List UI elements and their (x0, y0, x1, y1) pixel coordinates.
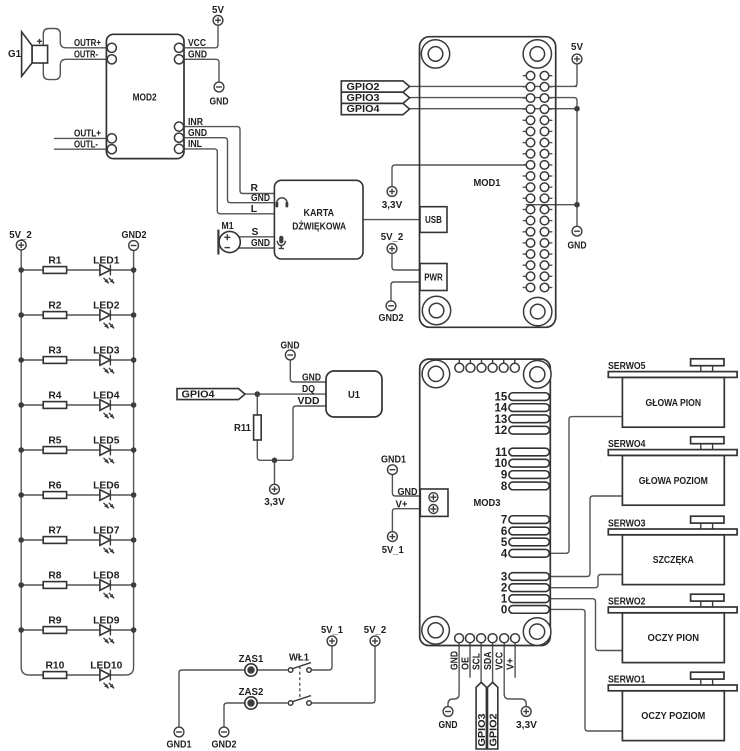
svg-text:8: 8 (501, 481, 508, 493)
svg-text:MOD1: MOD1 (474, 178, 501, 189)
svg-text:SZCZĘKA: SZCZĘKA (653, 555, 694, 566)
svg-text:R3: R3 (48, 346, 61, 357)
svg-text:R1: R1 (48, 256, 61, 267)
svg-text:SERWO2: SERWO2 (608, 597, 646, 608)
svg-text:OUTL-: OUTL- (74, 139, 98, 150)
svg-text:GPIO3: GPIO3 (347, 93, 380, 104)
svg-text:LED3: LED3 (93, 346, 120, 357)
svg-text:LED7: LED7 (93, 526, 120, 537)
svg-text:GND2: GND2 (212, 740, 237, 751)
svg-text:LED8: LED8 (93, 571, 120, 582)
svg-text:3,3V: 3,3V (516, 720, 537, 731)
svg-text:SCL: SCL (472, 653, 483, 670)
svg-text:ZAS2: ZAS2 (239, 687, 264, 698)
svg-text:9: 9 (501, 470, 507, 482)
svg-text:GND1: GND1 (381, 455, 406, 466)
svg-text:R8: R8 (48, 571, 61, 582)
svg-text:KARTA: KARTA (304, 208, 335, 219)
svg-text:SERWO4: SERWO4 (608, 439, 646, 450)
svg-text:OCZY PION: OCZY PION (648, 633, 700, 644)
svg-text:3,3V: 3,3V (264, 497, 285, 508)
svg-text:GPIO3: GPIO3 (477, 713, 488, 746)
svg-text:DQ: DQ (302, 384, 315, 395)
svg-text:GND: GND (188, 128, 207, 139)
svg-text:LED10: LED10 (90, 661, 122, 672)
svg-text:LED9: LED9 (93, 616, 120, 627)
svg-text:V+: V+ (396, 499, 408, 510)
svg-text:GND: GND (568, 240, 587, 251)
svg-text:5V: 5V (571, 42, 583, 53)
svg-text:USB: USB (425, 215, 442, 226)
svg-text:GND: GND (439, 720, 458, 731)
svg-text:GPIO4: GPIO4 (182, 389, 215, 400)
svg-text:GŁOWA POZIOM: GŁOWA POZIOM (639, 476, 708, 487)
svg-text:R2: R2 (48, 301, 61, 312)
svg-text:LED1: LED1 (93, 256, 120, 267)
svg-text:L: L (251, 204, 257, 215)
svg-text:GND: GND (450, 651, 461, 670)
svg-text:LED6: LED6 (93, 481, 120, 492)
svg-text:GPIO2: GPIO2 (347, 82, 380, 93)
svg-text:5V: 5V (212, 5, 224, 16)
svg-text:R9: R9 (48, 616, 61, 627)
svg-text:PWR: PWR (424, 273, 443, 284)
svg-text:VCC: VCC (495, 652, 506, 670)
svg-text:V+: V+ (506, 658, 517, 670)
svg-text:GND: GND (251, 238, 270, 249)
svg-text:GND: GND (281, 340, 300, 351)
svg-text:GND: GND (210, 97, 229, 108)
svg-text:R11: R11 (234, 423, 251, 434)
svg-text:INR: INR (188, 117, 203, 128)
svg-text:VCC: VCC (188, 38, 206, 49)
svg-text:G1: G1 (8, 49, 21, 60)
svg-text:LED5: LED5 (93, 436, 120, 447)
svg-text:LED2: LED2 (93, 301, 120, 312)
svg-text:GPIO2: GPIO2 (488, 713, 499, 746)
svg-text:MOD3: MOD3 (474, 498, 501, 509)
svg-text:GPIO4: GPIO4 (347, 104, 380, 115)
svg-text:11: 11 (495, 447, 508, 459)
svg-text:10: 10 (495, 458, 508, 470)
svg-text:14: 14 (495, 403, 508, 415)
svg-text:OE: OE (461, 657, 472, 670)
svg-text:LED4: LED4 (93, 391, 120, 402)
svg-text:GND: GND (251, 193, 270, 204)
svg-text:U1: U1 (348, 390, 360, 401)
svg-text:SERWO1: SERWO1 (608, 675, 646, 686)
svg-text:ZAS1: ZAS1 (239, 654, 264, 665)
svg-text:R4: R4 (48, 391, 61, 402)
svg-text:5V_2: 5V_2 (364, 625, 387, 636)
svg-text:3,3V: 3,3V (382, 200, 403, 211)
svg-text:WŁ1: WŁ1 (289, 652, 309, 663)
svg-text:12: 12 (495, 425, 508, 437)
svg-text:OUTR+: OUTR+ (74, 38, 101, 49)
svg-text:R5: R5 (48, 436, 61, 447)
svg-text:R10: R10 (45, 661, 64, 672)
svg-text:GND2: GND2 (122, 230, 147, 241)
svg-text:OCZY POZIOM: OCZY POZIOM (641, 711, 705, 722)
svg-text:GND2: GND2 (379, 313, 404, 324)
svg-text:5V_2: 5V_2 (381, 232, 404, 243)
svg-text:INL: INL (188, 139, 202, 150)
svg-text:VDD: VDD (298, 396, 320, 407)
svg-text:GND: GND (188, 50, 207, 61)
svg-text:5V_1: 5V_1 (321, 625, 343, 636)
svg-text:R7: R7 (48, 526, 61, 537)
svg-text:GND: GND (302, 372, 321, 383)
svg-text:GND: GND (398, 487, 418, 498)
svg-text:7: 7 (501, 515, 507, 527)
svg-text:SERWO3: SERWO3 (608, 519, 646, 530)
svg-text:S: S (252, 227, 259, 238)
svg-text:SDA: SDA (483, 651, 494, 670)
svg-text:3: 3 (501, 572, 507, 584)
svg-text:5V_1: 5V_1 (382, 545, 404, 556)
svg-text:MOD2: MOD2 (133, 93, 157, 104)
svg-text:SERWO5: SERWO5 (608, 361, 646, 372)
svg-text:GŁOWA PION: GŁOWA PION (646, 398, 702, 409)
svg-text:GND1: GND1 (167, 740, 192, 751)
svg-text:DŹWIĘKOWA: DŹWIĘKOWA (292, 220, 346, 233)
svg-text:5: 5 (501, 537, 508, 549)
svg-text:M1: M1 (222, 221, 234, 232)
svg-text:R6: R6 (48, 481, 61, 492)
svg-text:OUTL+: OUTL+ (74, 129, 101, 140)
svg-text:4: 4 (501, 548, 508, 560)
svg-text:5V_2: 5V_2 (9, 230, 32, 241)
svg-text:0: 0 (501, 604, 507, 616)
svg-text:OUTR-: OUTR- (74, 50, 98, 61)
svg-text:13: 13 (495, 414, 508, 426)
